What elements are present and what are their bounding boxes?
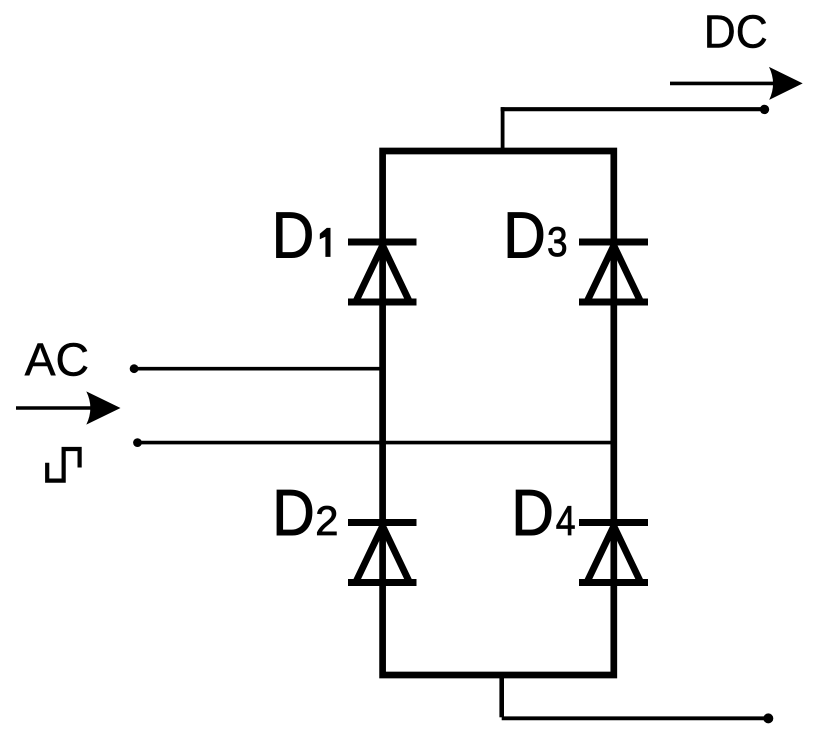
label D4 — [511, 476, 575, 549]
wire bottom tap vertical — [499, 675, 504, 717]
wire DC tap vertical — [501, 107, 505, 151]
square wave symbol — [47, 449, 79, 481]
DC output arrow — [670, 67, 803, 100]
label D3 — [503, 199, 567, 272]
svg-text:D: D — [503, 199, 546, 272]
label D2 — [272, 476, 338, 549]
svg-text:D: D — [511, 476, 554, 549]
diode D1 — [348, 242, 417, 302]
node bottom output terminal dot — [763, 713, 773, 723]
node AC upper terminal dot — [130, 364, 139, 373]
wire bottom output horizontal — [502, 716, 769, 720]
wire AC upper lead — [134, 367, 384, 371]
diode D3 — [579, 242, 648, 302]
node AC lower terminal dot — [133, 438, 142, 447]
diode D4 — [579, 523, 648, 583]
svg-text:2: 2 — [315, 497, 338, 544]
wire DC output horizontal — [501, 107, 765, 111]
svg-text:AC: AC — [25, 333, 90, 385]
svg-text:DC: DC — [704, 6, 768, 58]
AC input arrow — [16, 391, 121, 424]
node DC output terminal dot — [760, 105, 769, 114]
svg-text:3: 3 — [547, 218, 568, 265]
svg-text:D: D — [272, 476, 315, 549]
label D1 — [272, 199, 331, 272]
svg-text:4: 4 — [556, 497, 576, 544]
wire AC lower lead — [138, 441, 616, 445]
svg-text:D: D — [272, 199, 315, 272]
diode D2 — [348, 523, 417, 583]
bridge rectangle wire — [383, 151, 614, 675]
